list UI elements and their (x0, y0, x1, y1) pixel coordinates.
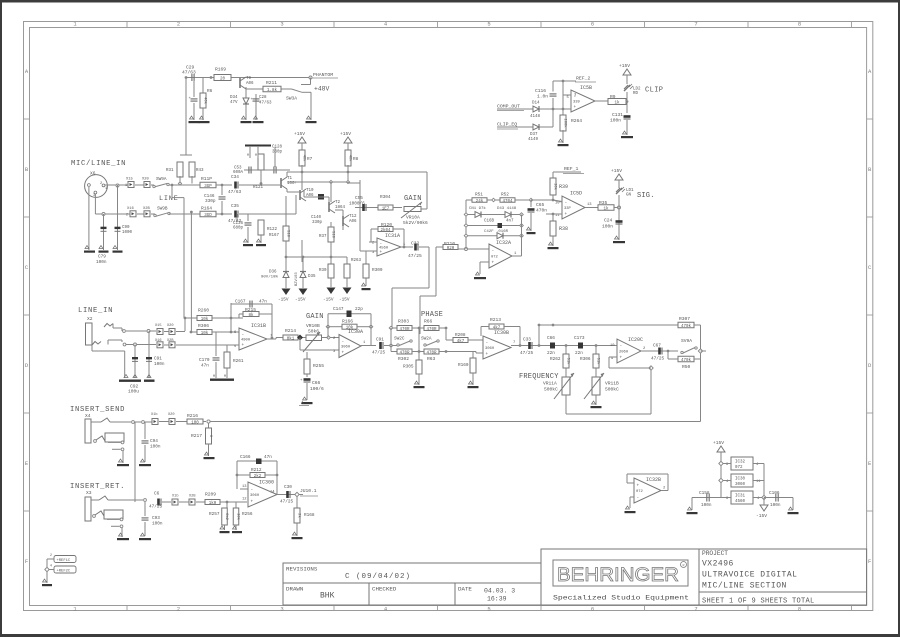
svg-text:R37: R37 (319, 235, 327, 239)
svg-text:1E7: 1E7 (382, 207, 390, 211)
svg-text:2: 2 (177, 21, 180, 28)
svg-text:2: 2 (177, 605, 180, 612)
svg-text:04.03. 3: 04.03. 3 (484, 588, 515, 595)
svg-text:BHK: BHK (320, 592, 335, 601)
svg-text:T2: T2 (335, 201, 341, 205)
svg-text:D37: D37 (530, 133, 538, 137)
svg-text:C30: C30 (284, 485, 292, 490)
svg-text:X2: X2 (87, 316, 93, 322)
svg-text:C94: C94 (150, 439, 158, 444)
svg-text:3060: 3060 (485, 347, 495, 351)
svg-text:-: - (342, 339, 345, 344)
svg-text:3GD: 3GD (204, 214, 212, 218)
svg-text:R263: R263 (351, 259, 362, 263)
svg-text:600A: 600A (233, 171, 244, 175)
svg-text:6: 6 (591, 605, 594, 612)
svg-text:PROJECT: PROJECT (702, 550, 728, 557)
svg-text:+REF2C: +REF2C (57, 570, 71, 574)
svg-text:F: F (25, 558, 28, 565)
svg-text:47V: 47V (230, 101, 238, 105)
svg-text:-: - (251, 488, 254, 493)
svg-text:R304: R304 (380, 195, 391, 200)
svg-text:1.0n: 1.0n (537, 94, 548, 100)
svg-text:-15V: -15V (295, 298, 306, 303)
svg-text:BZV103: BZV103 (295, 272, 299, 286)
svg-text:1: 1 (105, 187, 107, 191)
svg-text:X15: X15 (126, 178, 134, 182)
svg-text:072: 072 (491, 256, 499, 260)
svg-text:330p: 330p (205, 199, 216, 204)
svg-text:T1: T1 (287, 177, 293, 181)
svg-text:X20: X20 (167, 324, 173, 328)
svg-text:GAIN: GAIN (404, 195, 422, 203)
svg-text:+15V: +15V (294, 131, 305, 137)
svg-text:R256: R256 (242, 512, 253, 517)
svg-text:2k: 2k (296, 513, 301, 518)
svg-text:IC300: IC300 (259, 480, 274, 486)
svg-text:RD: RD (633, 92, 639, 96)
svg-text:R6: R6 (207, 89, 213, 94)
svg-text:100u: 100u (128, 389, 139, 395)
svg-text:-: - (486, 341, 489, 346)
svg-text:470k: 470k (681, 324, 692, 329)
svg-text:510: 510 (330, 231, 334, 239)
svg-text:100n: 100n (610, 118, 621, 124)
svg-text:470R: 470R (426, 328, 437, 332)
svg-text:R8: R8 (353, 157, 359, 162)
svg-text:4149: 4149 (528, 138, 539, 142)
svg-text:+: + (492, 261, 495, 266)
svg-text:R307: R307 (679, 316, 690, 322)
svg-text:BEHRINGER: BEHRINGER (557, 565, 679, 586)
svg-text:R214: R214 (285, 328, 296, 334)
svg-text:IC31: IC31 (735, 495, 746, 499)
svg-text:R164: R164 (201, 206, 212, 212)
svg-text:LD1: LD1 (626, 189, 634, 193)
svg-text:IC5B: IC5B (580, 85, 592, 91)
svg-text:-: - (565, 201, 568, 206)
svg-text:SHEET 1 OF 9 SHEETS TOTAL: SHEET 1 OF 9 SHEETS TOTAL (702, 598, 815, 606)
svg-text:1: 1 (125, 184, 127, 188)
svg-text:C106: C106 (769, 491, 780, 496)
svg-text:+: + (637, 484, 640, 489)
svg-text:C28: C28 (259, 96, 267, 100)
svg-text:R309: R309 (372, 268, 383, 273)
svg-text:SW9A: SW9A (156, 177, 167, 182)
svg-text:X15: X15 (155, 324, 161, 328)
svg-text:C42F .016R: C42F .016R (484, 230, 509, 234)
svg-text:D34: D34 (230, 96, 238, 100)
svg-text:R169: R169 (215, 67, 226, 73)
svg-text:100n: 100n (152, 522, 163, 527)
svg-text:330p: 330p (312, 221, 323, 225)
svg-text:+: + (380, 250, 383, 255)
svg-text:470k: 470k (681, 358, 692, 363)
svg-text:FREQUENCY: FREQUENCY (519, 373, 559, 381)
svg-text:51k: 51k (565, 358, 570, 366)
svg-text:T10: T10 (306, 189, 314, 193)
svg-text:C116: C116 (535, 88, 546, 94)
svg-text:8: 8 (798, 605, 801, 612)
svg-text:R211: R211 (266, 80, 277, 86)
svg-text:10: 10 (610, 344, 615, 348)
svg-text:24k: 24k (476, 199, 484, 204)
svg-text:47/63: 47/63 (228, 190, 242, 195)
svg-text:R43: R43 (196, 169, 204, 173)
svg-text:4: 4 (50, 564, 52, 568)
svg-text:100/6: 100/6 (310, 386, 324, 392)
svg-text:LINE: LINE (159, 195, 179, 203)
svg-text:100n: 100n (770, 503, 781, 508)
svg-text:1000: 1000 (122, 231, 133, 235)
svg-text:REF_1: REF_1 (564, 166, 579, 172)
svg-text:8: 8 (798, 21, 801, 28)
svg-text:C65: C65 (536, 202, 545, 208)
svg-text:5k2V/90k6: 5k2V/90k6 (403, 220, 428, 226)
svg-text:14: 14 (270, 491, 275, 495)
svg-text:R216: R216 (187, 413, 198, 419)
svg-text:-: - (637, 495, 640, 500)
svg-text:C91: C91 (376, 338, 384, 343)
svg-text:C79: C79 (98, 255, 106, 260)
svg-text:IC5D: IC5D (570, 191, 582, 197)
svg-text:IC31A: IC31A (385, 233, 400, 239)
svg-text:10k: 10k (201, 331, 209, 336)
svg-text:7: 7 (513, 341, 515, 345)
svg-text:500kC: 500kC (544, 387, 558, 393)
svg-text:10: 10 (555, 202, 560, 206)
svg-text:22p: 22p (355, 307, 363, 312)
svg-text:7: 7 (270, 335, 272, 339)
svg-text:020: 020 (447, 247, 455, 251)
svg-text:D36: D36 (269, 271, 277, 275)
svg-text:13: 13 (242, 485, 247, 489)
svg-text:VR10B: VR10B (306, 323, 320, 329)
svg-text:-15V: -15V (278, 298, 289, 303)
svg-text:VX2496: VX2496 (702, 560, 734, 569)
svg-text:X6: X6 (90, 171, 96, 177)
svg-text:R306: R306 (198, 323, 209, 329)
svg-text:C66: C66 (312, 380, 321, 386)
svg-text:IC31B: IC31B (251, 323, 266, 329)
svg-text:C55: C55 (355, 196, 363, 201)
svg-text:INSERT_RET.: INSERT_RET. (70, 483, 125, 491)
svg-text:40k: 40k (202, 97, 207, 105)
svg-text:D43 4148: D43 4148 (497, 207, 517, 211)
svg-text:IC30B: IC30B (494, 330, 509, 336)
svg-text:+15V: +15V (713, 440, 724, 446)
svg-text:072: 072 (636, 490, 644, 494)
svg-text:4148: 4148 (530, 115, 541, 119)
svg-text:R303: R303 (398, 319, 409, 325)
svg-text:47/25: 47/25 (149, 505, 163, 510)
svg-text:R52: R52 (501, 193, 509, 198)
svg-text:680p: 680p (233, 227, 244, 231)
svg-text:R306: R306 (580, 357, 591, 362)
svg-text:47/25: 47/25 (408, 253, 422, 259)
svg-text:4704: 4704 (502, 200, 513, 204)
svg-text:+15V: +15V (340, 131, 351, 137)
svg-text:12: 12 (242, 498, 247, 502)
svg-text:R11P: R11P (201, 176, 212, 182)
svg-text:C166: C166 (240, 455, 251, 460)
svg-text:20: 20 (220, 77, 226, 81)
svg-text:3: 3 (280, 21, 283, 28)
svg-text:R30: R30 (319, 269, 327, 273)
svg-text:IC32A: IC32A (496, 240, 511, 246)
svg-text:IC32B: IC32B (646, 477, 661, 483)
svg-text:40k: 40k (347, 155, 352, 163)
svg-text:470R: 470R (426, 351, 437, 355)
svg-text:47n: 47n (264, 455, 272, 460)
svg-text:500kC: 500kC (605, 387, 619, 393)
svg-text:10k: 10k (235, 513, 240, 521)
svg-text:C90: C90 (122, 226, 130, 230)
svg-text:C158: C158 (699, 491, 710, 496)
svg-text:VR11A: VR11A (543, 381, 557, 387)
svg-text:C53: C53 (234, 167, 242, 171)
svg-text:100n: 100n (701, 503, 712, 508)
svg-text:SW3A: SW3A (286, 96, 297, 102)
svg-text:IC32: IC32 (735, 461, 746, 465)
svg-text:A06: A06 (246, 82, 254, 86)
svg-text:47/63: 47/63 (259, 101, 272, 106)
svg-text:90V/10%: 90V/10% (261, 275, 278, 280)
svg-text:4900: 4900 (241, 339, 251, 343)
svg-text:IC30A: IC30A (348, 329, 363, 335)
svg-text:SW2C: SW2C (394, 337, 405, 342)
svg-text:+: + (620, 356, 623, 361)
svg-text:M: M (255, 153, 257, 157)
svg-text:GAIN: GAIN (306, 313, 324, 321)
svg-text:4k7: 4k7 (457, 339, 465, 344)
svg-text:339: 339 (573, 101, 581, 105)
svg-text:R166: R166 (342, 319, 353, 325)
svg-text:C35: C35 (231, 204, 239, 209)
svg-text:T9: T9 (246, 77, 252, 81)
svg-text:+REF1C: +REF1C (57, 559, 71, 563)
svg-text:C170: C170 (199, 358, 210, 363)
svg-text:100n: 100n (602, 224, 613, 230)
svg-text:R305: R305 (403, 365, 414, 370)
svg-text:T12: T12 (349, 215, 357, 219)
svg-text:X3: X3 (86, 490, 92, 496)
svg-text:-: - (380, 242, 383, 247)
svg-text:R66: R66 (424, 319, 433, 325)
svg-text:M: M (213, 375, 215, 379)
svg-text:CHECKED: CHECKED (372, 586, 397, 593)
svg-text:6: 6 (591, 21, 594, 28)
svg-text:IC30: IC30 (735, 478, 746, 482)
svg-text:R213: R213 (490, 317, 501, 323)
svg-text:1k0: 1k0 (209, 501, 217, 506)
svg-text:16:39: 16:39 (487, 596, 507, 603)
svg-text:13: 13 (587, 203, 592, 207)
svg-text:R160: R160 (458, 363, 469, 368)
svg-text:510: 510 (285, 230, 289, 238)
svg-text:R39: R39 (559, 184, 568, 190)
svg-text:+: + (251, 499, 254, 504)
svg-text:2: 2 (126, 214, 128, 218)
svg-text:22n: 22n (575, 351, 583, 356)
svg-text:+: + (486, 352, 489, 357)
svg-text:47/25: 47/25 (280, 500, 294, 505)
svg-text:D14: D14 (532, 102, 540, 106)
svg-text:M: M (247, 153, 249, 157)
svg-text:40k: 40k (301, 155, 306, 163)
svg-text:R262: R262 (550, 357, 561, 362)
svg-text:-15V: -15V (339, 298, 350, 303)
svg-text:C91: C91 (154, 357, 162, 362)
svg-text:47/25: 47/25 (372, 351, 386, 356)
svg-text:C93: C93 (152, 516, 160, 521)
svg-text:8k: 8k (248, 313, 254, 318)
svg-text:33P: 33P (564, 207, 572, 211)
svg-text:R260: R260 (198, 308, 209, 314)
svg-text:C24: C24 (604, 218, 613, 224)
svg-text:2k2: 2k2 (254, 474, 262, 479)
svg-text:C147: C147 (333, 307, 344, 312)
svg-text:C140: C140 (311, 216, 322, 220)
svg-text:COMP_OUT: COMP_OUT (497, 104, 520, 110)
svg-text:0k1: 0k1 (287, 336, 295, 341)
svg-text:4560: 4560 (735, 500, 746, 504)
svg-text:100k: 100k (562, 118, 567, 128)
svg-text:REF_2: REF_2 (576, 76, 591, 82)
svg-text:100n: 100n (154, 362, 165, 367)
svg-text:A06: A06 (349, 220, 357, 224)
svg-text:SV9A: SV9A (681, 338, 692, 344)
svg-text:C34: C34 (231, 175, 239, 180)
svg-text:+: + (565, 212, 568, 217)
svg-text:CLIP_EQ: CLIP_EQ (497, 122, 517, 128)
svg-text:R264: R264 (571, 118, 582, 124)
svg-text:22n: 22n (547, 351, 555, 356)
svg-text:R209: R209 (205, 492, 216, 498)
svg-text:LD2: LD2 (633, 88, 641, 92)
svg-text:-: - (620, 344, 623, 349)
svg-text:47/25: 47/25 (520, 351, 534, 356)
svg-text:-15V: -15V (756, 513, 767, 519)
svg-text:51k: 51k (595, 358, 600, 366)
svg-text:R255: R255 (313, 363, 324, 369)
svg-text:R38: R38 (559, 226, 568, 232)
svg-text:SW2A: SW2A (421, 337, 432, 342)
svg-text:JU10.1: JU10.1 (300, 488, 317, 494)
svg-text:-15V: -15V (323, 298, 334, 303)
svg-text:470n: 470n (536, 208, 547, 214)
svg-text:CLIP: CLIP (645, 87, 663, 95)
svg-text:D35: D35 (308, 275, 316, 279)
svg-text:+15V: +15V (619, 63, 630, 69)
svg-text:M: M (224, 375, 226, 379)
svg-text:X4: X4 (85, 413, 91, 419)
svg-text:R63: R63 (427, 356, 436, 362)
svg-text:3060: 3060 (341, 346, 351, 350)
svg-text:R168: R168 (304, 513, 315, 518)
svg-text:11: 11 (555, 214, 560, 218)
svg-text:R31: R31 (166, 169, 174, 173)
svg-text:2060: 2060 (619, 351, 629, 355)
svg-text:100n: 100n (96, 260, 107, 265)
svg-text:R302: R302 (398, 356, 409, 362)
svg-text:SW9B: SW9B (157, 207, 168, 212)
svg-text:C131: C131 (612, 112, 623, 118)
svg-text:C128: C128 (272, 146, 283, 150)
svg-text:CN1 97k: CN1 97k (469, 206, 486, 211)
svg-text:C66: C66 (547, 336, 555, 341)
svg-text:-: - (492, 249, 495, 254)
svg-text:+: + (342, 350, 345, 355)
svg-text:7: 7 (694, 605, 697, 612)
svg-text:R7: R7 (307, 157, 313, 162)
svg-text:SIG.: SIG. (637, 192, 655, 200)
svg-text:100n: 100n (150, 445, 161, 450)
svg-text:VR11B: VR11B (605, 381, 619, 387)
svg-text:+: + (242, 343, 245, 348)
svg-text:R51: R51 (475, 193, 483, 198)
svg-text:IC20C: IC20C (628, 337, 643, 343)
svg-text:C16B: C16B (484, 220, 495, 224)
svg-text:072: 072 (735, 466, 743, 470)
svg-text:DRAWN: DRAWN (286, 586, 304, 593)
svg-text:+48V: +48V (314, 86, 330, 93)
svg-text:F: F (868, 558, 871, 565)
svg-text:10k: 10k (201, 317, 209, 322)
svg-text:100+: 100+ (287, 182, 298, 186)
svg-text:R50: R50 (682, 364, 691, 370)
svg-text:1k: 1k (614, 100, 620, 105)
svg-text:MIC/LINE SECTION: MIC/LINE SECTION (702, 582, 787, 591)
svg-text:DATE: DATE (458, 586, 472, 593)
svg-text:47n: 47n (201, 364, 209, 369)
svg-text:INSERT_SEND: INSERT_SEND (70, 406, 125, 414)
svg-text:C (09/04/02): C (09/04/02) (345, 573, 411, 581)
svg-text:330p: 330p (272, 151, 283, 155)
svg-text:REVISIONS: REVISIONS (286, 566, 318, 573)
svg-text:3GP: 3GP (204, 185, 212, 189)
svg-text:VR10A: VR10A (406, 215, 420, 221)
svg-text:R257: R257 (209, 512, 220, 517)
svg-text:5: 5 (487, 605, 490, 612)
svg-text:X1b: X1b (151, 412, 157, 417)
svg-text:R121: R121 (253, 186, 264, 190)
svg-text:LINE_IN: LINE_IN (78, 307, 113, 315)
svg-text:C136: C136 (233, 222, 244, 226)
svg-text:3: 3 (93, 194, 95, 198)
svg-text:-: - (242, 333, 245, 338)
svg-text:7: 7 (694, 21, 697, 28)
svg-text:3060: 3060 (735, 483, 746, 487)
svg-text:4n7: 4n7 (506, 220, 514, 224)
svg-text:X2B: X2B (189, 495, 196, 499)
svg-text:470R: 470R (399, 351, 410, 355)
svg-text:C33: C33 (523, 338, 531, 343)
svg-text:X20: X20 (168, 413, 174, 417)
svg-text:100: 100 (191, 421, 199, 425)
svg-text:0k2: 0k2 (224, 513, 229, 521)
svg-text:R217: R217 (191, 433, 202, 439)
svg-text:47/25: 47/25 (651, 357, 665, 362)
svg-text:1864: 1864 (335, 206, 346, 210)
svg-text:R167: R167 (269, 234, 280, 238)
svg-text:+15V: +15V (611, 168, 622, 174)
svg-text:X20: X20 (142, 178, 150, 182)
svg-text:Specialized Studio Equipment: Specialized Studio Equipment (553, 595, 689, 602)
svg-text:X1b: X1b (172, 494, 178, 499)
svg-text:1k: 1k (603, 206, 609, 211)
svg-text:+: + (574, 105, 577, 110)
